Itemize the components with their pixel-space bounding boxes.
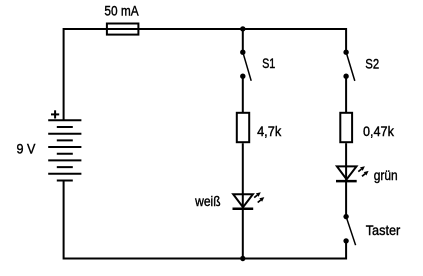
svg-text:grün: grün bbox=[374, 167, 398, 183]
battery BT1 (9 V multi-cell) bbox=[48, 120, 81, 180]
LED D2 (gruen) bbox=[336, 166, 369, 181]
junction: bottom node (D1 branch to bottom rail) bbox=[240, 256, 245, 261]
pushbutton switch: Taster bbox=[343, 214, 355, 245]
wire: negative rail (battery - down, across bottom, up to Taster) bbox=[64, 181, 347, 259]
wire: D2 to Taster bbox=[345, 181, 347, 217]
wire: S1 to R1 bbox=[242, 76, 244, 112]
resistor R2 bbox=[340, 113, 352, 142]
svg-text:50 mA: 50 mA bbox=[104, 3, 139, 19]
switch S2 bbox=[343, 50, 354, 81]
svg-text:0,47k: 0,47k bbox=[363, 123, 395, 139]
svg-text:S1: S1 bbox=[262, 55, 275, 71]
LED D1 (weiss) bbox=[233, 192, 265, 209]
wire: D1 to bottom rail bbox=[242, 209, 244, 259]
svg-text:9 V: 9 V bbox=[17, 141, 36, 157]
wire: S2 to R2 bbox=[345, 76, 347, 112]
wire: R2 to LED D2 bbox=[345, 143, 347, 181]
svg-text:S2: S2 bbox=[365, 56, 379, 72]
wire: R1 to LED D1 bbox=[242, 143, 244, 209]
polarity label: + bbox=[51, 110, 59, 118]
wire: top node to S1 bbox=[242, 29, 244, 52]
switch S1 bbox=[240, 50, 251, 81]
svg-text:4,7k: 4,7k bbox=[257, 123, 282, 139]
junction: top node (rail to S1 branch) bbox=[240, 26, 245, 31]
wire: positive rail (battery + up left side, across top, down to S2) bbox=[64, 29, 347, 120]
fuse F1 bbox=[107, 24, 138, 35]
svg-text:weiß: weiß bbox=[194, 193, 220, 209]
svg-text:Taster: Taster bbox=[366, 222, 401, 238]
resistor R1 bbox=[237, 113, 249, 142]
